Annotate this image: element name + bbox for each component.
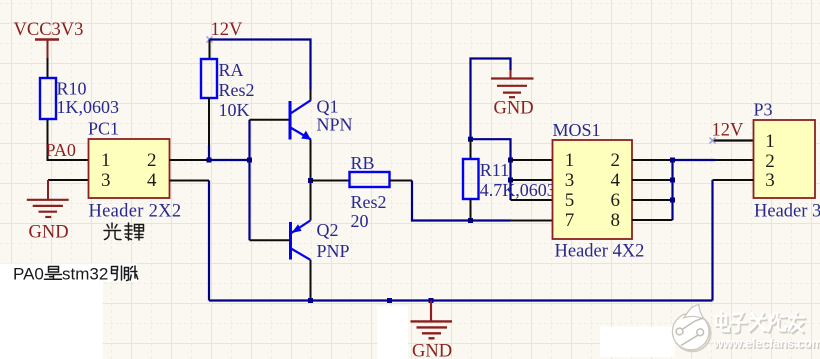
wire P3 pin3: [713, 179, 754, 181]
svg-text:PA0: PA0: [13, 265, 44, 284]
svg-text:RA: RA: [219, 60, 244, 80]
ground GND left: [27, 180, 69, 243]
svg-text:VCC3V3: VCC3V3: [14, 20, 84, 40]
svg-text:7: 7: [565, 210, 575, 231]
svg-text:stm32: stm32: [62, 265, 108, 284]
wire R11 top net to GND top: [471, 59, 511, 140]
svg-text:1: 1: [765, 131, 775, 152]
wire R10 to PC1 pin1: [48, 119, 89, 160]
svg-text:P3: P3: [754, 100, 773, 120]
wire RA top stub: [209, 40, 211, 60]
svg-text:R11: R11: [480, 160, 509, 180]
svg-text:Header 2X2: Header 2X2: [89, 202, 182, 222]
svg-text:GND: GND: [494, 99, 534, 119]
svg-text:R10: R10: [57, 79, 87, 99]
transistor Q2: [291, 220, 350, 261]
wire ground bus: [209, 299, 713, 301]
svg-text:5: 5: [565, 190, 575, 211]
svg-text:6: 6: [611, 190, 621, 211]
node MOS1 pin1: [508, 158, 513, 163]
wire MOS1 pin2: [632, 159, 673, 161]
svg-text:4: 4: [611, 170, 621, 191]
node MOS1 pin4: [670, 178, 675, 183]
svg-text:NPN: NPN: [317, 115, 353, 135]
node RA/PC1 pin2: [207, 158, 212, 163]
wire R11 top stub: [470, 139, 472, 159]
svg-text:3: 3: [765, 170, 775, 191]
svg-text:RB: RB: [351, 153, 375, 173]
wire MOS1 pin5: [511, 199, 553, 201]
svg-text:MOS1: MOS1: [553, 120, 601, 140]
node bus GND: [429, 298, 434, 303]
wire PC1 pin3 to ground: [48, 179, 89, 181]
wire 12V rail to Q1 collector: [210, 40, 311, 91]
wire Q1 emitter to Q2 emitter: [310, 140, 312, 221]
node R11 bottom: [468, 218, 473, 223]
svg-text:Res2: Res2: [351, 192, 387, 212]
node R11 top: [468, 137, 473, 142]
wire VCC3V3 to R10: [47, 58, 49, 78]
svg-text:Q2: Q2: [317, 220, 339, 240]
svg-text:12V: 12V: [211, 20, 244, 40]
connector MOS1 Header 4X2: [553, 120, 645, 262]
svg-text:Q1: Q1: [317, 97, 339, 117]
node MOS1 pin3: [508, 178, 513, 183]
connector PC1 Header 2X2: [88, 119, 181, 222]
wire R11 bottom stub: [470, 199, 472, 221]
wire MOS1 right column vertical: [671, 160, 673, 220]
svg-text:PNP: PNP: [317, 241, 350, 261]
node MOS1 pin6: [670, 198, 675, 203]
wire Q1 base to Q2 base vertical: [248, 120, 250, 240]
wire PC1 pin4: [170, 180, 210, 182]
svg-text:GND: GND: [29, 223, 69, 243]
svg-text:1: 1: [565, 150, 575, 171]
wire Q1 collector pin: [310, 90, 312, 101]
annotation PA0 note: [13, 265, 138, 284]
wire RA bottom to node: [208, 98, 210, 145]
wire P3 pin3 down to bus: [711, 180, 713, 301]
svg-text:Header 3: Header 3: [754, 202, 820, 222]
svg-text:GND: GND: [412, 342, 452, 359]
wire MOS1 pin8: [632, 219, 673, 221]
wire PC1 pin2: [170, 159, 210, 161]
wire node to RB: [311, 180, 350, 182]
svg-text:20: 20: [351, 211, 369, 231]
wire 12V to P3 pin1: [713, 139, 754, 141]
svg-text:PC1: PC1: [88, 119, 119, 139]
node emitter/RB: [308, 178, 313, 183]
svg-text:1K,0603: 1K,0603: [57, 97, 120, 117]
svg-text:2: 2: [147, 150, 157, 171]
svg-text:10K: 10K: [219, 100, 250, 120]
transistor Q1: [290, 97, 353, 140]
power port VCC3V3: [14, 20, 84, 58]
wire Q2 collector to bus: [310, 260, 312, 301]
svg-text:12V: 12V: [712, 121, 745, 141]
svg-text:Res2: Res2: [219, 80, 255, 100]
no-ERC marker: [710, 138, 716, 144]
resistor RA: [201, 59, 255, 120]
resistor RB: [350, 153, 390, 231]
resistor R10: [40, 78, 119, 119]
wire RB to MOS1 pin7 row: [390, 180, 413, 182]
svg-text:1: 1: [101, 150, 111, 171]
svg-text:4: 4: [147, 170, 157, 191]
svg-text:3: 3: [565, 170, 575, 191]
wire MOS1 to P3 pin2: [673, 159, 716, 161]
wire node to base line: [209, 159, 250, 161]
svg-text:Header 4X2: Header 4X2: [555, 242, 645, 262]
node base line: [247, 158, 252, 163]
wire MOS1 pin3: [511, 179, 553, 181]
watermark logo: [672, 305, 710, 352]
watermark text: [713, 312, 820, 352]
annotation optocoupler label: [104, 223, 144, 240]
svg-text:2: 2: [611, 150, 621, 171]
resistor R11: [463, 159, 556, 200]
svg-text:PA0: PA0: [46, 140, 76, 160]
no-ERC marker 12V left: [207, 37, 213, 43]
svg-text:www.elecfans.com: www.elecfans.com: [713, 337, 820, 351]
wire pin4 down to bus: [208, 181, 210, 301]
connector P3 Header 3: [754, 100, 820, 222]
node MOS1 pin2: [670, 158, 675, 163]
svg-text:8: 8: [611, 210, 621, 231]
wire MOS1 pin6: [632, 199, 673, 201]
svg-text:2: 2: [765, 151, 775, 172]
svg-text:4.7K,0603: 4.7K,0603: [480, 180, 556, 200]
wire MOS1 pin1: [511, 159, 553, 161]
node bus Q2 collector: [308, 298, 313, 303]
wire Q2 base: [250, 239, 290, 241]
node bus middle: [387, 298, 392, 303]
ground GND top: [491, 70, 534, 119]
ground GND bottom: [411, 301, 453, 359]
wire node to MOS1 left column: [471, 139, 511, 200]
wire MOS1 pin4: [632, 179, 673, 181]
wire Q1 base: [250, 119, 290, 121]
svg-text:3: 3: [101, 170, 111, 191]
